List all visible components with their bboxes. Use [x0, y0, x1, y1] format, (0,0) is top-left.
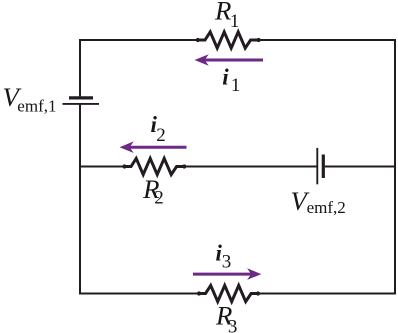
resistor R1	[198, 32, 259, 48]
wire left vertical lower	[79, 104, 81, 294]
svg-text:2: 2	[156, 125, 166, 146]
label V_emf,2	[291, 186, 346, 217]
label i2	[151, 112, 166, 146]
wire middle-right segment	[325, 166, 395, 168]
current arrow i1	[195, 54, 264, 66]
label R3	[215, 301, 237, 333]
battery V_emf,2	[317, 148, 323, 184]
resistor R3	[199, 285, 258, 301]
node dot R2 right	[182, 164, 186, 168]
resistor R2	[125, 158, 185, 174]
wire middle-left segment	[80, 166, 125, 168]
label R2	[142, 174, 164, 209]
label i1	[222, 64, 240, 96]
svg-text:2: 2	[154, 188, 164, 209]
node dot R2 left	[122, 164, 126, 168]
label i3	[216, 241, 232, 273]
node dot R3 left	[197, 291, 201, 295]
node dot R1 right	[257, 38, 261, 42]
battery V_emf,1	[63, 98, 100, 104]
svg-text:emf,1: emf,1	[17, 96, 56, 115]
svg-text:emf,2: emf,2	[307, 198, 346, 217]
svg-text:i: i	[222, 64, 229, 89]
wire right vertical	[394, 39, 396, 294]
svg-text:1: 1	[230, 11, 240, 32]
wire bottom-left segment	[79, 293, 199, 295]
wire left vertical upper	[79, 39, 81, 96]
label R1	[214, 0, 239, 32]
wire top-left segment	[79, 39, 198, 41]
svg-text:3: 3	[228, 316, 238, 333]
svg-text:1: 1	[231, 75, 241, 96]
node dot R1 left	[196, 38, 200, 42]
svg-text:3: 3	[222, 252, 232, 273]
label V_emf,1	[3, 82, 57, 115]
current arrow i2	[120, 141, 187, 153]
wire middle-center segment	[184, 166, 317, 168]
svg-text:R: R	[214, 0, 231, 25]
wire bottom-right segment	[258, 293, 396, 295]
current arrow i3	[193, 268, 261, 280]
wire top-right segment	[259, 39, 396, 41]
node dot R3 right	[256, 291, 260, 295]
